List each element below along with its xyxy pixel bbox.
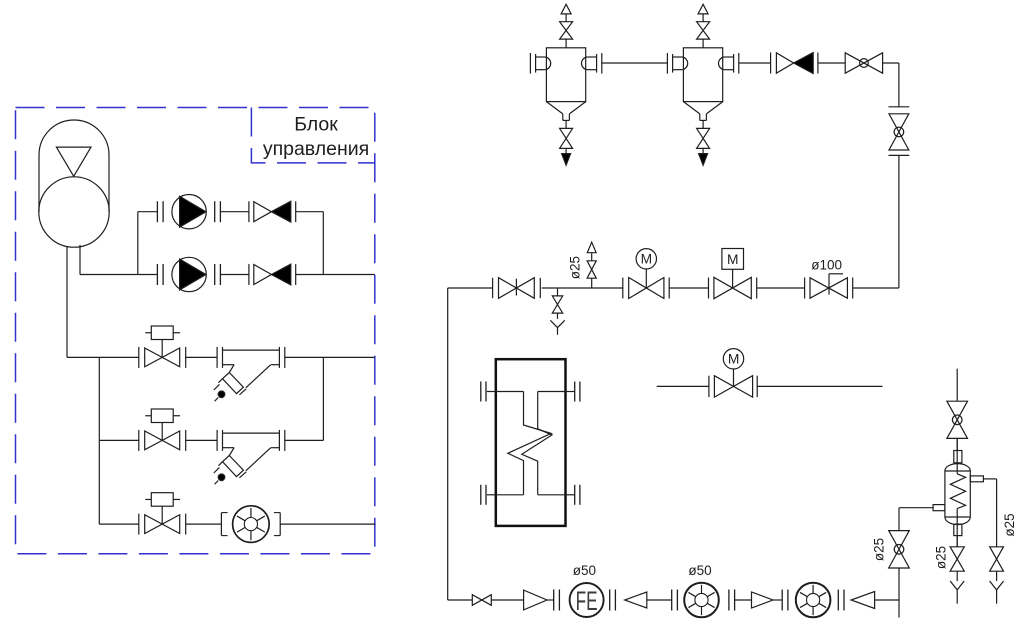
expansion tank vessel — [39, 120, 109, 247]
wire check valve to ball valve — [818, 62, 845, 64]
svg-text:ø25: ø25 — [1002, 513, 1017, 536]
wire bottom seg 3 — [547, 599, 554, 601]
wire line3 left — [99, 523, 139, 525]
motor valve V2 with actuator — [139, 409, 186, 451]
dirt separator S1 — [530, 4, 601, 165]
vessel coil — [950, 438, 965, 546]
reducer cone left 2 — [851, 592, 875, 609]
wire pump P2 to check valve — [220, 274, 249, 276]
label ø50 W2 — [688, 563, 711, 578]
motor valve MC (circle M) standalone — [709, 349, 757, 398]
balancing valve ø100 — [805, 274, 853, 299]
check valve after pump P2 — [249, 264, 296, 285]
reducer cone right 2 — [752, 592, 774, 608]
Y-strainer F2 — [214, 430, 285, 484]
wire bottom seg 6 — [773, 599, 782, 601]
wire left port to left riser — [899, 508, 933, 531]
wire line2 valve to strainer — [186, 439, 217, 441]
wire bottom seg 7 to junction — [875, 599, 899, 601]
svg-text:FE: FE — [576, 586, 598, 616]
meter W2 flanges right — [729, 590, 735, 611]
dirt separator S2 — [667, 4, 738, 165]
wire bottom seg 4 — [647, 599, 672, 601]
wire line1 valve to strainer — [186, 356, 217, 358]
wire bottom line segment 2 — [491, 599, 523, 601]
water meter W1 bracket flanges — [221, 513, 280, 536]
heat exchanger port A1 flanges — [481, 382, 496, 402]
pump P1 — [172, 195, 206, 229]
wire upper pump line right — [296, 211, 324, 213]
check valve top line — [771, 53, 818, 74]
water meter W3 — [796, 583, 831, 618]
svg-text:ø50: ø50 — [688, 563, 711, 578]
vessel (water heater) body — [945, 451, 970, 536]
svg-text:ø100: ø100 — [811, 258, 842, 273]
ball valve above vessel — [947, 401, 968, 438]
wire bottom seg 5 — [735, 599, 752, 601]
wire line3 valve to meter — [186, 523, 222, 525]
drain outlet branch 2 — [990, 571, 1004, 604]
pump P2 discharge flanges — [215, 264, 221, 285]
svg-text:ø25: ø25 — [872, 538, 887, 561]
wire left riser — [447, 288, 449, 600]
wire pump-lines right vertical — [322, 212, 324, 275]
ball valve top line — [845, 53, 882, 73]
wire line3 right — [280, 523, 375, 525]
wire stub below junction — [898, 600, 900, 618]
svg-text:ø25: ø25 — [568, 256, 583, 279]
label ø25 branch 2 — [1002, 513, 1017, 536]
wire riser down to supply line — [853, 155, 899, 288]
wire stub above vessel valve — [956, 369, 958, 402]
label ø25 air vent — [568, 256, 583, 279]
wire left branch to bottom line — [898, 568, 900, 600]
reducer cone right — [524, 590, 547, 610]
svg-text:M: M — [641, 252, 653, 267]
label text Блок управления — [263, 114, 369, 160]
wire M-valve to M-valve — [669, 287, 708, 289]
shut-off valve supply line — [493, 278, 541, 299]
label ø50 FE — [573, 563, 596, 578]
heat exchanger port A2 flanges — [566, 382, 580, 402]
meter W2 flanges left — [672, 590, 678, 611]
label ø25 below vessel — [934, 546, 949, 569]
control unit dashed border box — [16, 108, 375, 554]
wire standalone line right — [757, 385, 882, 387]
svg-text:M: M — [728, 352, 740, 367]
Y-strainer F1 — [214, 347, 285, 401]
label ø100 — [811, 258, 842, 273]
wire line1 from tank — [67, 356, 139, 358]
svg-text:ø25: ø25 — [934, 546, 949, 569]
svg-text:управления: управления — [263, 138, 369, 160]
pump P2 — [172, 257, 206, 291]
svg-text:ø50: ø50 — [573, 563, 596, 578]
ball valve on riser — [889, 107, 910, 156]
wire pump P1 to check valve — [220, 211, 249, 213]
wire line1 right — [285, 356, 375, 358]
heat exchanger port B1 flanges — [481, 485, 496, 505]
label ø25 left branch — [872, 538, 887, 561]
wire M-valve to branches — [542, 287, 623, 289]
heat exchanger internal channels — [496, 392, 566, 495]
motor valve V3 with actuator — [139, 493, 186, 535]
label box dashed border (Блок управления) — [251, 108, 374, 163]
heat exchanger port B2 flanges — [566, 485, 580, 505]
drain branch below vessel — [950, 536, 964, 604]
motor valve V1 with actuator — [139, 326, 186, 368]
wire top right corner — [883, 63, 899, 107]
flow meter FE — [570, 583, 604, 617]
wire standalone line left — [657, 385, 709, 387]
wire separator S2 to check valve — [739, 62, 771, 64]
heat exchanger plate body — [496, 359, 566, 526]
flow meter FE flanges right — [610, 590, 616, 611]
wire line2 right + up vertical — [285, 357, 324, 440]
wire valve to vessel — [956, 438, 958, 450]
water meter W1 — [233, 506, 270, 543]
pump P2 suction flanges — [157, 264, 163, 285]
pump P1 suction flanges — [157, 201, 163, 222]
wire ø100 valve to M-valve — [757, 287, 805, 289]
check valve after pump P1 — [249, 201, 296, 222]
air vent branch ø25 — [587, 242, 596, 288]
wire pump-lines left vertical — [137, 212, 139, 275]
vessel right port — [970, 476, 983, 482]
drain valve branch 2 — [990, 547, 1004, 571]
water meter W2 — [684, 583, 719, 618]
wire supply line left corner — [448, 287, 493, 289]
motor valve MB (square M) — [709, 249, 757, 299]
flow meter FE flanges left — [554, 590, 560, 611]
ball valve left branch ø25 — [889, 531, 910, 568]
wire branch vertical — [98, 357, 100, 524]
svg-text:Блок: Блок — [294, 114, 338, 136]
reducer cone left 1 — [625, 592, 647, 608]
svg-text:M: M — [727, 252, 739, 267]
wire between separators — [602, 62, 668, 64]
wire right port to drain branch 2 — [983, 479, 996, 547]
pump P1 discharge flanges — [215, 201, 221, 222]
wire lower pump line right to border — [296, 274, 375, 276]
vessel left port — [933, 505, 945, 511]
meter W3 flanges left — [782, 590, 788, 611]
wire line2 left — [99, 439, 139, 441]
small valve bottom line — [472, 595, 491, 606]
motor valve MA (circle M) — [623, 249, 669, 299]
wire upper pump line left — [138, 211, 158, 213]
drain branch below supply line — [550, 288, 565, 335]
meter W3 flanges right — [838, 590, 844, 611]
wire tank to line1 — [66, 247, 68, 358]
wire bottom line segment 1 — [448, 599, 473, 601]
wire tank to pump suction line — [80, 245, 157, 275]
